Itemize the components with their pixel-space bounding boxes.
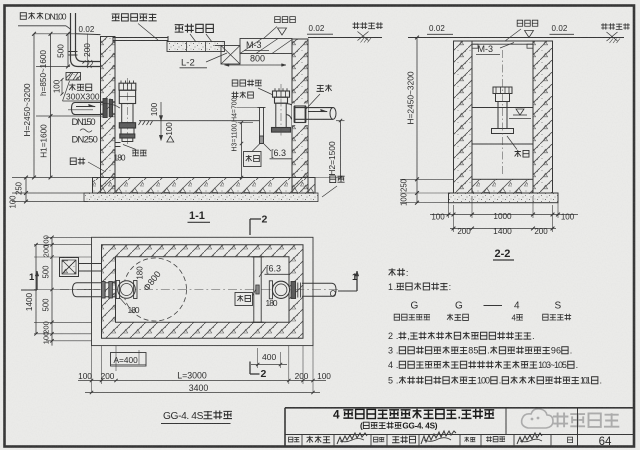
dim H2=1500 <box>340 121 342 178</box>
label chibi (tank wall) <box>70 158 76 165</box>
vent pipe pier in plan (square with X) <box>60 258 79 277</box>
cover plate on 2-2 tank <box>468 40 537 42</box>
label phi-800 rotated <box>141 269 163 293</box>
dims 250 and 100 at 2-2 base <box>415 191 419 195</box>
inlet socket bars at wall in plan <box>102 282 106 299</box>
cushion layer under slab <box>84 193 318 202</box>
flow arrow in outlet pipe <box>308 111 327 113</box>
watermark text tushan huanbao <box>553 413 568 428</box>
L-2 angle block under slab edge <box>221 46 240 65</box>
label taoguan (sleeve) <box>317 85 324 92</box>
plan left dim chain line <box>51 237 53 345</box>
interior outline of tank <box>115 55 292 178</box>
sleeve through right wall <box>293 104 308 125</box>
signature row cell lines <box>301 435 303 447</box>
2-2 bottom dimension line 2: 200 1400 200 <box>450 228 556 230</box>
right wall of tank (hatched) <box>292 39 308 193</box>
label guanzhidun 300X300 (pipe pier) <box>69 84 75 91</box>
bracket between wall and inlet tee <box>115 142 121 144</box>
section 1-1: ground line left of tank <box>76 33 101 36</box>
precast cover slabs (stippled) <box>167 42 225 52</box>
label geban (partition) 2-2 <box>515 150 521 157</box>
section cut mark 1 left of plan <box>21 289 37 291</box>
pipe support pier under vent elbow <box>66 73 81 81</box>
outlet socket bars at wall in plan <box>291 282 296 299</box>
label zhijia (bracket) <box>132 150 139 156</box>
inlet pipe in plan from left <box>73 283 117 297</box>
2-2 footing slab <box>449 193 559 203</box>
plan total width dim 3400 <box>85 392 320 394</box>
left dimension extension lines <box>34 33 76 35</box>
water level mark 2-2 <box>516 109 524 115</box>
clearance dims 100 near water level <box>160 102 162 121</box>
watermark logo cloud <box>522 409 553 428</box>
outlet pipe to right <box>295 107 334 109</box>
label shenhe (checked) <box>289 437 293 442</box>
pipe break squiggle on vent pipe <box>87 60 89 68</box>
label yuzhi gaiban (precast slab) <box>175 25 184 32</box>
label tongqiguan DN100 (vent pipe) <box>20 13 26 20</box>
tank floor slab (hatched) <box>93 178 316 194</box>
vent pipe stub in plan <box>79 263 102 265</box>
label ye (page) <box>568 437 573 442</box>
outdoor ground label 2-2 <box>601 23 608 29</box>
plan bottom dim row L=3000 <box>78 380 326 382</box>
section cut mark 2 below plan <box>249 362 251 375</box>
outlet tee circle in plan <box>272 281 289 298</box>
inlet pipe socket at wall <box>103 99 107 118</box>
section cut mark 1 right of plan <box>338 290 357 292</box>
plan center line <box>60 289 340 291</box>
notes heading shuoming <box>389 268 396 276</box>
phi-800 dashed circle <box>124 258 187 321</box>
name guo shidi <box>307 436 313 443</box>
dim 250 and 100 at slab <box>25 178 27 202</box>
dim H=2450~3200 for 2-2 <box>416 38 418 180</box>
outlet pipe in plan to right <box>302 283 336 296</box>
labels jinre liqing / mu dutou (asphalt wood plug) <box>232 80 238 86</box>
dim H3=1100,H4=700 <box>241 123 243 178</box>
label sheji (design) <box>464 437 469 442</box>
inlet tee assembly inside tank <box>121 81 134 84</box>
interior outline 2-2 <box>472 48 533 179</box>
outlet tee with wood plug cap <box>275 88 287 91</box>
steel cover label 2-2 <box>517 20 522 26</box>
dim 100 at pier <box>53 79 62 93</box>
signature scribble 3 <box>517 433 542 444</box>
label gang gaiban (steel cover) with level mark <box>275 17 280 23</box>
partition channel in plan <box>254 257 261 323</box>
plan left dim chain extension lines <box>34 244 92 246</box>
inlet tee circle in plan <box>118 281 136 299</box>
name ren xiangdong <box>392 436 400 443</box>
signature scribble 1 <box>337 433 367 444</box>
dim A=400 boxed <box>111 353 147 367</box>
partition plate seen in elevation 2-2 <box>472 107 533 109</box>
section 2-2: ground line <box>408 37 624 39</box>
2-2 interior floor slab (hatched) <box>472 179 533 193</box>
left wall of 2-2 (hatched) <box>454 41 473 193</box>
M-3 steel cover plate region with diagonals <box>240 39 292 54</box>
water surface hatch wedge near inlet <box>139 121 153 125</box>
flow arrow in inlet pipe <box>76 106 95 108</box>
label dianceng (cushion) <box>330 176 336 183</box>
left wall of tank (hatched) <box>101 37 116 194</box>
dim line H=2450~3200 <box>33 34 35 178</box>
center pipe in 2-2 with cap <box>493 87 512 94</box>
name lin huizhi <box>486 436 492 442</box>
dim line 500 vent depth <box>67 34 69 67</box>
dim 200 wall top <box>87 34 89 67</box>
label jiaodui (proofread) <box>374 437 378 442</box>
partition channel steel in 1-1 <box>260 108 264 144</box>
right wall of 2-2 (hatched) <box>533 41 553 193</box>
inlet pipe DN150 from left <box>72 103 104 115</box>
label jinggai-zhizuo (manhole cover and seat) <box>112 14 120 21</box>
manhole cover double line <box>113 37 168 39</box>
label geban boxed in plan <box>235 293 253 306</box>
label geban (partition) boxed <box>244 152 262 167</box>
signature scribble 2 <box>421 431 456 444</box>
water level line <box>139 120 260 122</box>
vent pipe DN100 vertical with elbow <box>71 13 101 67</box>
center line of pipe 2-2 <box>502 50 504 176</box>
dim line h=850~1600 and H1=1600 <box>50 34 52 178</box>
extension line at partition top level <box>237 107 258 109</box>
title block outline <box>285 407 634 409</box>
dim 180 rotated near inlet <box>135 266 144 280</box>
plan view wall band (hatched) <box>102 245 304 339</box>
center line of inlet tee <box>126 78 128 145</box>
plan view outer footing outline <box>92 237 314 345</box>
2-2 bottom dimension line 1: 100 1000 100 <box>430 214 578 216</box>
ground line right of tank with outdoor ground label <box>308 37 382 39</box>
center line of outlet tee <box>280 84 282 136</box>
outlet elbow through wall <box>286 104 294 120</box>
plan total height dim 1400 <box>35 245 37 334</box>
section cut mark 2 below 1-1 <box>249 219 251 235</box>
model code captions <box>394 314 399 320</box>
